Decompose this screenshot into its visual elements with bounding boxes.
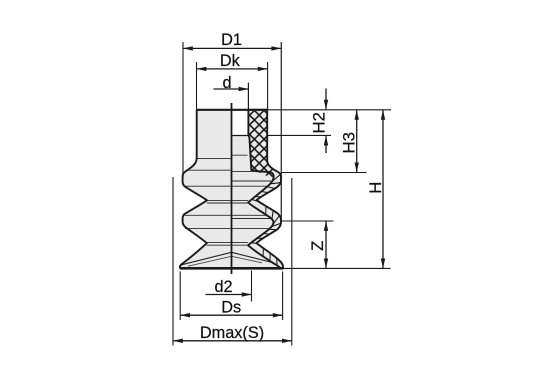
flange bottom contour [197,158,231,160]
fold1 bottom tangent line [185,185,267,187]
dimension Ds [179,272,181,321]
hatch rungs on bellows wall section [251,175,281,266]
svg-text:H3: H3 [340,132,359,153]
bottom reference line to right dims [283,267,390,269]
cavity step contour [232,154,248,156]
svg-text:d2: d2 [214,278,232,296]
fold1 top tangent line [187,169,232,171]
hole right edge / d extension line [247,83,249,136]
fold2 bottom tangent line [185,228,269,230]
svg-text:D1: D1 [221,31,242,49]
D1 left extension line [182,42,184,176]
svg-text:Z: Z [308,241,327,251]
dimension D1 [183,47,281,49]
cavity fold1 top contour [232,171,251,173]
cavity fold2 shelf contour [232,218,272,220]
sealing lip inner slope lines [188,256,262,266]
svg-text:Dmax(S): Dmax(S) [200,324,264,342]
fold2 top tangent line [185,214,267,216]
cavity fold1 shelf contour [232,180,272,182]
svg-text:H: H [366,182,385,194]
valley2 contour pair [207,242,248,244]
dimension H3 [281,172,366,174]
left half contour lines [185,159,270,246]
dimension Z [282,220,334,222]
dimension Dmax(S) [172,177,174,346]
dimension H2 [268,134,331,136]
Dk extension lines [196,62,198,110]
cavity contour lines (right half) [232,155,272,218]
svg-text:Ds: Ds [221,299,241,317]
top surface edge [197,109,268,111]
right section: rubber wall (block + bellows band), gray fill with outline [248,110,283,269]
hole bottom edge [232,135,249,137]
lip bottom edge (thick) [180,267,283,270]
svg-text:d: d [222,74,231,92]
sealing lip top surface slope lines [182,252,281,264]
dimension d2 [251,271,253,302]
rear fold silhouette + D1 right extension line [280,42,282,222]
svg-text:H2: H2 [309,112,328,133]
suction cup right section: inner cavity (gray) [232,136,281,269]
dimension H [382,110,384,269]
left exterior outline [180,110,207,269]
centerline [231,103,233,274]
top reference line to right dims [268,109,391,111]
suction cup left exterior half (gray silhouette) [180,110,232,269]
dimension Dk [197,68,268,70]
valley1 contour pair [207,199,248,201]
svg-text:Dk: Dk [220,52,241,70]
dimension d [214,88,249,90]
